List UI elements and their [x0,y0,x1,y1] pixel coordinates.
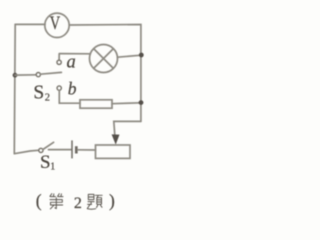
svg-text:S: S [40,152,51,173]
svg-text:2: 2 [74,195,82,212]
svg-text:2: 2 [45,92,50,103]
svg-text:b: b [68,79,77,99]
svg-text:S: S [33,83,44,104]
svg-text:): ) [109,191,115,211]
svg-text:(: ( [36,191,42,211]
svg-text:a: a [67,53,76,73]
svg-text:V: V [50,12,60,33]
svg-text:1: 1 [50,162,55,173]
